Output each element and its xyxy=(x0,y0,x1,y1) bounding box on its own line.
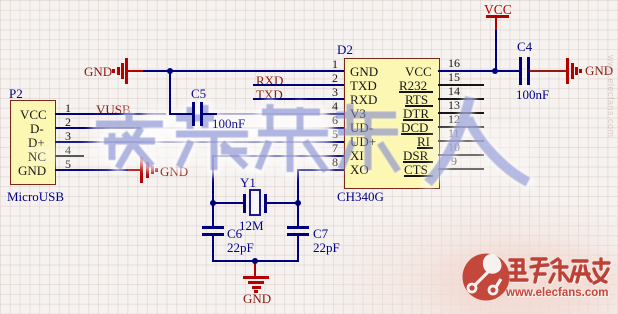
wire to C5 left plate xyxy=(169,113,192,115)
ground symbol (top-right) xyxy=(566,58,569,84)
watermark char 3 xyxy=(258,104,328,172)
pin name RTS xyxy=(405,93,428,106)
pin D- label xyxy=(30,122,44,135)
wire VUSB (pin1) xyxy=(55,113,166,115)
pin name RXD xyxy=(350,93,377,106)
ground symbol GND (top-left) xyxy=(84,65,112,78)
pin name R232 xyxy=(399,79,427,92)
left pin numbers xyxy=(332,58,338,70)
svg-text:www.elecfans.com: www.elecfans.com xyxy=(505,287,608,299)
pin GND label xyxy=(18,164,46,177)
capacitor C5 xyxy=(192,102,195,126)
wire pin16 VCC net xyxy=(438,70,519,72)
wire C5 right plate to V3 pin4 xyxy=(203,113,344,115)
wire vertical junction to C5 line xyxy=(169,70,171,114)
wire GND rail to chip pin1 xyxy=(143,70,344,72)
right pin numbers xyxy=(448,57,460,69)
wire TXD (chip pin3) xyxy=(253,98,344,100)
pin number 2 xyxy=(65,116,71,128)
pink corner backdrop xyxy=(440,238,618,314)
pin name DSR xyxy=(403,149,428,162)
capacitor C7 xyxy=(297,203,299,227)
wire vertical XO branch xyxy=(297,169,299,203)
watermark char 5 xyxy=(428,97,528,183)
watermark char 4 xyxy=(336,104,398,171)
wire pin14 stub xyxy=(438,98,484,100)
elecfans logo watermark xyxy=(450,204,618,314)
vertical site watermark right edge xyxy=(604,55,616,155)
wire GND stub (red) xyxy=(128,70,143,72)
wire RXD (chip pin2) xyxy=(253,84,344,86)
pin number 1 xyxy=(65,102,71,114)
pin name CTS xyxy=(404,163,428,176)
connector P2 body xyxy=(10,100,56,185)
wire D+ to UD+ (pin3) xyxy=(55,141,344,143)
pin name GND xyxy=(350,65,378,78)
wire pin13 stub xyxy=(438,112,484,114)
pin number 4 xyxy=(65,144,71,156)
pin number 3 xyxy=(65,130,71,142)
wire D- to UD- (pin2) xyxy=(55,127,344,129)
net label TXD xyxy=(256,88,283,101)
pin name RI xyxy=(417,135,430,148)
pin name XI xyxy=(350,149,364,162)
node bottom center xyxy=(252,258,258,264)
pin name XO xyxy=(350,163,369,176)
capacitor C6 xyxy=(212,203,214,227)
ground symbol (middle-left) xyxy=(140,157,143,183)
wire bottom rail xyxy=(212,260,299,262)
net label RXD xyxy=(256,74,283,87)
wire GND (pin5) xyxy=(55,169,128,171)
wire NC stub (pin4) xyxy=(55,155,84,157)
pin name TXD xyxy=(350,79,377,92)
ground symbol (bottom) xyxy=(254,262,256,276)
pin name VCC xyxy=(405,65,432,78)
capacitor C4 xyxy=(519,57,522,85)
watermark char 2 xyxy=(176,105,248,170)
net label VUSB xyxy=(96,103,131,116)
wire C4 to ground (maroon) xyxy=(530,70,566,72)
pin D+ label xyxy=(28,136,45,149)
wire XO (chip pin8) xyxy=(297,169,344,171)
op-amp U1 equivalent: IC D2 body xyxy=(344,58,440,189)
wire XI (chip pin7) xyxy=(213,155,344,157)
pin name DTR xyxy=(403,107,429,120)
pin number 5 xyxy=(65,158,71,170)
watermark char 1 xyxy=(96,113,163,168)
node crystal right xyxy=(295,200,301,206)
pin name UD+ xyxy=(350,135,376,148)
wire crystal row right xyxy=(266,202,298,204)
pin name V3 xyxy=(350,107,366,120)
pin name UD- xyxy=(350,121,373,134)
node junction GND/C5 xyxy=(167,68,173,74)
pin name DCD xyxy=(401,121,428,134)
wire pin15 stub xyxy=(438,84,484,86)
wire pin10 stub xyxy=(438,154,484,156)
wire pin12 stub xyxy=(438,126,484,128)
wire vertical XI branch xyxy=(212,155,214,203)
pin VCC label xyxy=(20,108,47,121)
wire pin11 stub xyxy=(438,140,484,142)
node VCC junction xyxy=(492,68,498,74)
wire crystal row left xyxy=(213,202,244,204)
node crystal left xyxy=(210,200,216,206)
white fog patches xyxy=(140,110,332,141)
pin NC label xyxy=(28,150,46,163)
power VCC symbol xyxy=(484,3,512,17)
wire red stub to ground xyxy=(128,169,141,171)
pink tint bottom-right xyxy=(300,160,618,314)
wire pin9 stub xyxy=(438,168,484,170)
crystal Y1 xyxy=(243,194,246,213)
